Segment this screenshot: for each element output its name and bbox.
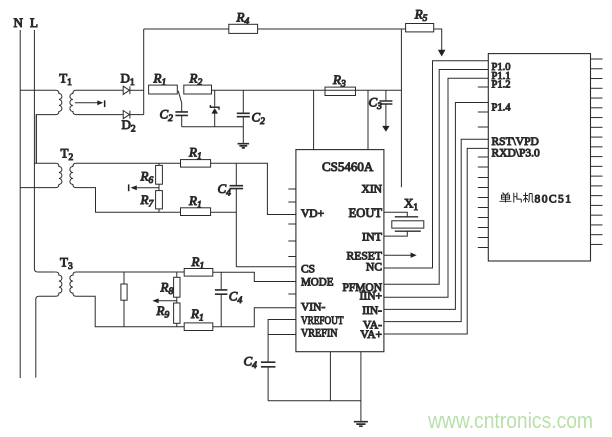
svg-text:D1: D1 — [121, 71, 135, 89]
svg-text:R2: R2 — [189, 71, 203, 89]
resistor (unlabeled, T3 burden) — [121, 272, 127, 327]
svg-text:RST\VPD: RST\VPD — [492, 136, 539, 148]
wire NC to P1.0 — [384, 61, 488, 268]
resistor R3 — [325, 87, 356, 95]
svg-text:C4: C4 — [244, 354, 258, 372]
wire R4 left — [144, 28, 229, 30]
R8/R9 tap arrow — [152, 297, 176, 303]
crystal X1 — [392, 196, 424, 232]
svg-text:R1: R1 — [188, 145, 202, 163]
svg-text:RESET: RESET — [347, 249, 383, 263]
resistor R2 — [184, 85, 212, 94]
transformer T3 — [36, 255, 184, 378]
resistor R9 — [156, 303, 181, 327]
capacitor C4 (T3) — [215, 272, 243, 326]
svg-text:EOUT: EOUT — [349, 206, 383, 220]
svg-text:XIN: XIN — [362, 184, 383, 196]
resistor R1 (T2 lower) — [181, 208, 211, 216]
svg-text:R9: R9 — [156, 303, 170, 321]
wire VREFIN to column — [268, 334, 296, 336]
svg-text:VA+: VA+ — [360, 329, 382, 341]
svg-text:R7: R7 — [140, 192, 155, 210]
svg-text:R5: R5 — [414, 7, 428, 25]
wire PFMON to P1.1 — [384, 70, 488, 285]
svg-text:IIN-: IIN- — [362, 305, 382, 317]
wire crystal to INT — [384, 231, 407, 236]
resistor R8 — [160, 272, 181, 297]
capacitor C2 (right) — [237, 90, 265, 143]
wire VA- to RST\VPD — [384, 139, 488, 321]
op-amp U2 MCU 80C51 box — [488, 54, 590, 261]
svg-text:R6: R6 — [140, 169, 154, 187]
svg-text:R3: R3 — [332, 72, 346, 90]
resistor R1 (T3 upper) — [184, 269, 213, 277]
wire RESET with arrow — [384, 253, 417, 258]
svg-text:R1: R1 — [188, 193, 202, 211]
ground (bottom) — [354, 422, 368, 427]
svg-text:C2: C2 — [252, 110, 266, 128]
svg-text:IIN+: IIN+ — [360, 291, 382, 303]
svg-text:VREFIN: VREFIN — [301, 328, 338, 340]
wire IIN+ to P1.2 — [384, 78, 488, 297]
T1 tap arrow with bar — [75, 100, 106, 107]
diode D2 — [122, 111, 144, 135]
capacitor C4 (T2) — [218, 163, 244, 266]
svg-text:X1: X1 — [404, 196, 418, 214]
svg-text:80C51: 80C51 — [535, 193, 572, 205]
wire T1 primary bottom drop joining T2 top — [35, 115, 37, 164]
resistor R1 (rectifier output) — [149, 85, 178, 94]
svg-text:VD+: VD+ — [301, 208, 324, 220]
wire C4 column to CS pin — [236, 266, 296, 268]
svg-text:T1: T1 — [59, 71, 72, 89]
R6/R7 tap arrow with bar — [128, 184, 159, 191]
wire CS5460A AGND pin down to ground — [360, 352, 362, 422]
svg-text:NC: NC — [366, 262, 382, 274]
svg-text:C2: C2 — [160, 107, 174, 125]
wire XIN column (R4/R5 junction down to XIN pin) — [400, 29, 402, 187]
capacitor C4 (VREF decoupling) — [244, 354, 276, 401]
MCU unconnected left pin stubs — [478, 86, 489, 88]
wire VREFOUT to bottom rail column — [268, 320, 296, 363]
wire EOUT to crystal — [384, 212, 407, 217]
svg-text:R1: R1 — [190, 306, 204, 324]
resistor R1 (T2 upper) — [181, 160, 211, 168]
wire drop to CS5460A top (left) — [313, 90, 315, 149]
wire drop to CS5460A top (right) — [367, 90, 369, 149]
wire D1/D2 cathode junction up to R4 rail — [143, 29, 145, 115]
svg-text:C4: C4 — [229, 289, 243, 307]
wire T3 upper rail to MODE — [213, 272, 296, 281]
svg-text:P1.2: P1.2 — [492, 80, 511, 91]
svg-text:R8: R8 — [160, 280, 174, 298]
svg-text:C4: C4 — [218, 181, 232, 199]
wire T2 lower rail to C4 column — [211, 211, 237, 213]
wire VA+ to RXD\P3.0 — [384, 148, 488, 334]
svg-text:P1.4: P1.4 — [492, 102, 512, 113]
op-amp U1 CS5460A (ADC/energy IC) — [296, 150, 384, 352]
wire R2 output rail to XIN column — [212, 89, 402, 91]
capacitor C3 — [369, 90, 393, 132]
wire T3 lower rail to VIN- — [213, 308, 296, 327]
ground (below right C2) — [238, 144, 250, 148]
resistor R4 — [229, 24, 258, 33]
svg-text:RXD\P3.0: RXD\P3.0 — [492, 148, 540, 160]
svg-text:R4: R4 — [236, 9, 250, 27]
wire T2 upper rail to VD+ — [211, 163, 296, 214]
wire C2/zener bottom rail — [182, 126, 244, 128]
svg-text:www.cntronics.com: www.cntronics.com — [427, 408, 593, 433]
diode D1 — [121, 71, 144, 95]
wire CS5460A DGND pin down — [329, 352, 331, 401]
MCU label 单片机80C51 — [500, 193, 534, 203]
svg-text:T2: T2 — [61, 146, 74, 164]
svg-text:D2: D2 — [122, 117, 136, 135]
CS5460A unconnected left pin stubs — [288, 188, 296, 190]
resistor R1 (T3 lower) — [184, 323, 213, 331]
resistor R7 — [140, 191, 163, 213]
svg-text:R1: R1 — [191, 254, 205, 272]
transformer T2 — [20, 146, 180, 213]
wire R4 to R5 (junction to XIN line at x=401.4) — [258, 28, 406, 30]
svg-text:INT: INT — [362, 230, 383, 244]
svg-text:N: N — [14, 15, 24, 30]
svg-text:VREFOUT: VREFOUT — [301, 315, 344, 327]
svg-text:CS: CS — [301, 263, 315, 275]
svg-text:MODE: MODE — [301, 277, 334, 289]
wire bottom ground rail — [268, 400, 361, 402]
svg-text:CS5460A: CS5460A — [322, 159, 374, 174]
resistor R6 — [140, 163, 163, 186]
wire N vertical rail — [19, 30, 21, 378]
svg-text:L: L — [30, 15, 38, 30]
resistor R5 — [406, 24, 434, 32]
wire R5 right with down arrow to MCU — [434, 29, 446, 57]
transformer T1 — [20, 71, 123, 164]
svg-text:R1: R1 — [153, 71, 167, 89]
capacitor C2 (left) — [160, 91, 188, 127]
MCU right pin stubs — [591, 58, 603, 60]
wire L vertical rail into T3 primary top — [34, 30, 55, 272]
svg-text:VIN-: VIN- — [301, 302, 325, 314]
svg-text:T3: T3 — [60, 255, 73, 273]
zener diode — [210, 90, 219, 127]
wire IIN- to P1.4 — [384, 103, 488, 310]
